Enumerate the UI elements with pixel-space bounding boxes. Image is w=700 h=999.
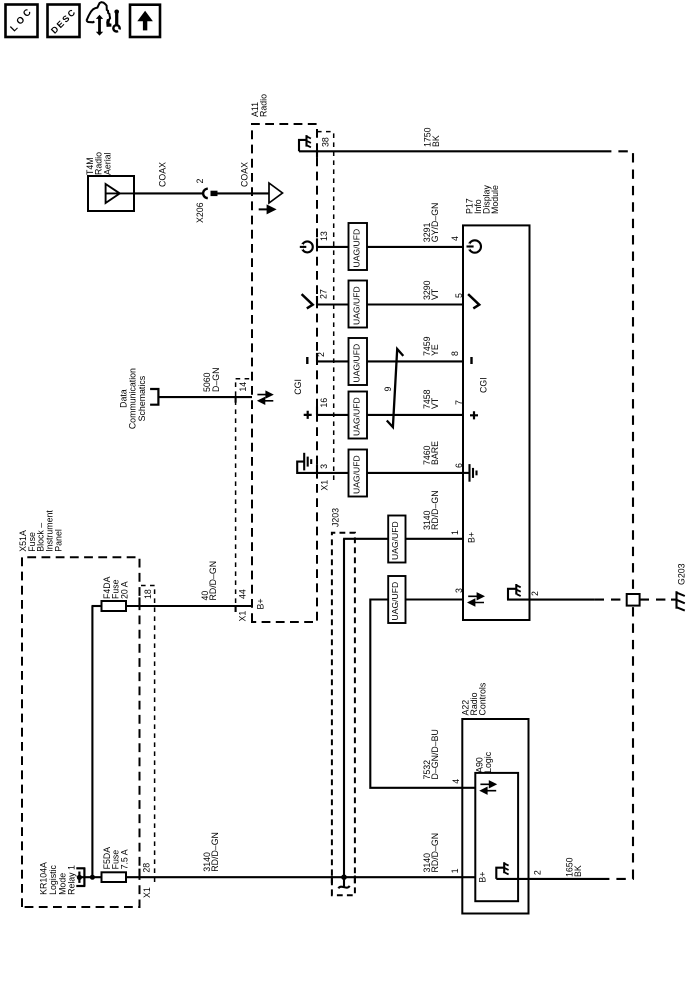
svg-text:9: 9: [383, 387, 393, 392]
fuse F5DA symbol: [102, 872, 127, 882]
wire feed to F4DA fuse: [92, 606, 103, 878]
svg-text:B+: B+: [255, 598, 265, 609]
UAG/UFD box wire P17 pin3: [388, 576, 405, 623]
serial data arrows radio pin 14: [257, 392, 273, 404]
pin 28 tick: [138, 869, 140, 878]
chassis ground symbol P17 pin 2: [508, 584, 521, 600]
connector J203 dashed box: [332, 533, 355, 895]
plus symbol P17 pin 7: [470, 411, 478, 419]
pin 38 tick: [316, 150, 318, 158]
pin 3 tick: [316, 464, 318, 473]
chassis ground symbol radio pin 38: [299, 135, 311, 151]
off-page bracket Data Communication: [150, 389, 158, 405]
earth ground symbol P17 pin 6: [463, 464, 477, 482]
pin 18 tick: [138, 597, 140, 606]
icon up-arrow box: [130, 5, 160, 37]
earth ground symbol radio pin 3: [297, 453, 317, 473]
svg-text:2: 2: [195, 179, 205, 184]
wire COAX X206 to radio antenna: [217, 192, 269, 194]
plus symbol radio pin 16: [304, 411, 312, 419]
svg-text:18: 18: [143, 589, 153, 599]
pin 14 tick: [235, 396, 237, 403]
pin 2 tick: [316, 353, 318, 362]
minus symbol P17 pin 8: [470, 357, 472, 364]
wire 1750 BK solid: [299, 150, 602, 152]
svg-text:UAG/UFD: UAG/UFD: [352, 344, 362, 383]
check symbol P17 pin 5: [468, 294, 479, 308]
UAG/UFD box wire 3: [349, 450, 368, 497]
wire 1650 BK from A90 ground: [496, 878, 600, 880]
svg-text:44: 44: [237, 589, 247, 599]
svg-text:KR104ALogisticModeRelay 1: KR104ALogisticModeRelay 1: [39, 862, 77, 895]
wire B+ branch to P17 pin 1: [343, 539, 463, 877]
pin 13 tick: [316, 238, 318, 247]
svg-text:X1: X1: [237, 611, 247, 622]
svg-text:J203: J203: [330, 508, 340, 527]
svg-text:UAG/UFD: UAG/UFD: [352, 397, 362, 436]
svg-text:UAG/UFD: UAG/UFD: [390, 521, 400, 560]
svg-text:27: 27: [318, 289, 328, 299]
radio controls A22 box: [462, 719, 528, 914]
svg-text:1: 1: [450, 868, 460, 873]
icon vehicle outline with double arrow and wrench: [86, 2, 122, 35]
svg-text:UAG/UFD: UAG/UFD: [390, 582, 400, 621]
antenna T4M box: [88, 176, 134, 211]
svg-text:COAX: COAX: [157, 162, 167, 187]
wire 3291 radio pin13 to P17 pin4: [317, 246, 463, 248]
connector X1 fine-dash (radio right, pins 13-3): [317, 132, 334, 480]
fuse block X51A dashed box: [22, 557, 140, 907]
svg-text:X206: X206: [195, 202, 205, 223]
antenna symbol T4M: [106, 184, 134, 203]
wire 3140 into A22 pin 1: [462, 876, 475, 878]
svg-text:G203: G203: [676, 563, 686, 585]
connector X1 fine-dash (radio left, pins 44/14): [236, 379, 252, 612]
chassis ground symbol G203: [671, 591, 685, 610]
display module P17 box: [463, 225, 530, 620]
connector X206 symbol: [203, 189, 217, 198]
UAG/UFD box wire 16: [349, 392, 368, 439]
minus symbol radio pin 2: [306, 357, 308, 364]
svg-text:B+: B+: [477, 872, 487, 883]
svg-text:38: 38: [320, 137, 330, 147]
svg-text:UAG/UFD: UAG/UFD: [352, 455, 362, 494]
pin 16 tick: [316, 406, 318, 415]
wire 1750 BK dashed to G203: [602, 151, 633, 594]
svg-text:UAG/UFD: UAG/UFD: [352, 286, 362, 325]
svg-text:3: 3: [454, 588, 464, 593]
wire 40 from F4DA down to radio pin 44: [126, 605, 252, 607]
junction dot feed branch: [90, 875, 95, 880]
RF arrow: [259, 206, 275, 213]
tick J203 lower edge: [354, 876, 356, 884]
junction square G203: [627, 594, 640, 606]
svg-text:CGI: CGI: [293, 379, 303, 395]
check symbol radio pin 27: [302, 294, 313, 308]
svg-text:2: 2: [530, 591, 540, 596]
UAG/UFD box wire 13: [349, 223, 368, 270]
UAG/UFD box wire B+: [388, 516, 405, 563]
serial data arrows P17 pin 3: [468, 593, 484, 605]
connector X1 fine-dash line (fuse block): [141, 586, 155, 883]
svg-text:COAX: COAX: [239, 162, 249, 187]
antenna symbol inside radio: [269, 183, 283, 203]
logic module A90 box: [475, 773, 518, 901]
svg-text:16: 16: [319, 398, 329, 408]
wire COAX T4M to X206: [134, 192, 203, 194]
stub square to G203 symbol: [640, 599, 671, 601]
relay KR104A contact symbol: [76, 868, 85, 887]
shield symbol note 9: [387, 349, 404, 427]
wire 7459 radio pin2 to P17 pin8: [317, 360, 463, 362]
svg-text:X1: X1: [320, 480, 330, 491]
wire 7532 inside A22: [462, 787, 475, 789]
chassis ground symbol A90: [496, 862, 508, 879]
tick J203 upper edge: [331, 876, 333, 884]
fuse F4DA symbol: [102, 601, 127, 611]
svg-text:1: 1: [450, 530, 460, 535]
wire 5060 D-GN: [158, 396, 252, 398]
wire 3290 radio pin27 to P17 pin5: [317, 303, 463, 305]
wire 7460 radio pin3 to P17 pin6: [317, 472, 463, 474]
wire 7458 radio pin16 to P17 pin7: [317, 414, 463, 416]
svg-text:CGI: CGI: [478, 377, 488, 393]
wire relay to F5DA fuse: [79, 876, 102, 878]
svg-text:X1: X1: [142, 887, 152, 898]
svg-text:8: 8: [450, 351, 460, 356]
radio A11 dashed box: [252, 124, 317, 622]
svg-text:28: 28: [141, 863, 151, 873]
svg-text:13: 13: [319, 231, 329, 241]
serial data arrows A90 pin 4: [480, 781, 496, 793]
svg-text:2: 2: [316, 352, 326, 357]
wire P17 pin2 below box solid: [530, 599, 595, 601]
wire 1650 BK dashed to G203: [600, 878, 634, 880]
svg-text:B+: B+: [466, 532, 476, 543]
splice stub with crimp wave: [338, 877, 349, 888]
UAG/UFD box wire 27: [349, 281, 368, 328]
svg-text:F5DAFuse7.5 A: F5DAFuse7.5 A: [102, 847, 130, 870]
svg-text:3: 3: [319, 464, 329, 469]
icon DESC box: [48, 5, 80, 38]
power symbol radio pin 13: [300, 241, 313, 252]
pin 44 tick: [235, 605, 237, 612]
junction dot J203: [341, 874, 347, 880]
ground bus dashed to G203: [632, 606, 634, 879]
svg-text:UAG/UFD: UAG/UFD: [352, 229, 362, 268]
svg-text:4: 4: [451, 779, 461, 784]
wire P17 pin3 to A90 pin4: [370, 600, 463, 788]
svg-text:4: 4: [450, 236, 460, 241]
pin 27 tick: [316, 296, 318, 305]
icon LOC box: [6, 5, 38, 38]
svg-text:14: 14: [238, 382, 248, 392]
wire 3140 from F5DA down (bus): [126, 876, 463, 878]
UAG/UFD box wire 2: [349, 338, 368, 385]
power symbol P17 pin 4: [466, 240, 481, 252]
wire P17 pin2 dashed to G203 square: [595, 599, 627, 601]
svg-text:2: 2: [532, 870, 542, 875]
wire P17 pin2 to G203: [507, 599, 530, 601]
